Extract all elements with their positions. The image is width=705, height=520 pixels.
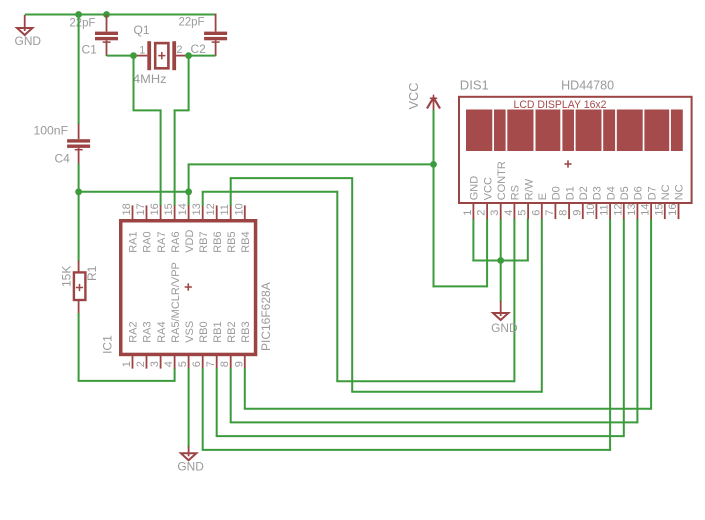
pin 12 RB6 IC1 top: [205, 203, 224, 253]
svg-text:RB2: RB2: [226, 321, 238, 342]
svg-text:D0: D0: [551, 186, 563, 200]
wire RB5 to LCD E: [230, 178, 232, 206]
svg-text:11: 11: [599, 204, 611, 215]
node crystal pin2 junction: [185, 52, 192, 59]
svg-text:C2: C2: [191, 42, 207, 56]
pin 11 RB5 IC1 top: [219, 204, 238, 253]
pin 13 RB7 IC1 top: [191, 203, 210, 253]
wire VCC rail upper: [78, 14, 80, 125]
pin 17 RA0 IC1 top: [135, 203, 154, 253]
svg-text:D2: D2: [578, 186, 590, 200]
wire VCC vertical: [433, 110, 435, 287]
svg-text:NC: NC: [660, 184, 672, 200]
pin 2 VCC DIS1: [476, 177, 495, 219]
svg-text:PIC16F628A: PIC16F628A: [259, 282, 273, 351]
pin 5 R/W DIS1: [517, 178, 536, 219]
svg-text:RA5/MCLR/VPP: RA5/MCLR/VPP: [170, 262, 182, 343]
svg-text:C1: C1: [82, 43, 98, 57]
wire VCC rail mid: [78, 164, 80, 262]
svg-text:13: 13: [191, 203, 203, 215]
svg-text:15: 15: [163, 203, 175, 215]
svg-text:VDD: VDD: [184, 230, 196, 253]
wire LCD pin5 R/W down: [527, 219, 529, 262]
capacitor C1: [95, 15, 118, 57]
pin 11 D4 DIS1: [599, 186, 618, 219]
svg-text:2: 2: [176, 44, 182, 56]
pin 4 RA5/MCLR/VPP IC1 bottom: [163, 262, 182, 369]
node junction VCC: [430, 161, 437, 168]
svg-text:13: 13: [626, 204, 638, 216]
svg-text:1: 1: [121, 361, 133, 367]
svg-text:IC1: IC1: [101, 335, 115, 354]
svg-text:8: 8: [558, 210, 570, 216]
pin 9 RB3 IC1 bottom: [233, 321, 252, 368]
svg-text:100nF: 100nF: [34, 124, 69, 138]
svg-text:RA6: RA6: [170, 231, 182, 252]
svg-text:8: 8: [219, 361, 231, 367]
svg-text:RA4: RA4: [156, 321, 168, 342]
svg-text:RA7: RA7: [156, 231, 168, 252]
svg-text:RB1: RB1: [212, 321, 224, 342]
wire crystal pin2 to C2: [189, 55, 216, 57]
svg-text:6: 6: [191, 361, 203, 367]
svg-text:5: 5: [177, 361, 189, 367]
svg-text:22pF: 22pF: [179, 15, 205, 29]
pin 10 D3 DIS1: [585, 186, 604, 219]
pin 5 VSS IC1 bottom: [177, 321, 196, 369]
svg-text:14: 14: [177, 203, 189, 215]
svg-text:CONTR: CONTR: [496, 161, 508, 200]
svg-text:11: 11: [219, 204, 231, 215]
svg-text:RS: RS: [510, 185, 522, 200]
svg-text:GND: GND: [469, 176, 481, 201]
svg-text:9: 9: [233, 361, 245, 367]
wire crystal pin2 to IC pin15: [188, 55, 190, 111]
display DIS1 HD44780 body: [459, 97, 692, 203]
svg-text:D3: D3: [592, 186, 604, 200]
svg-text:2: 2: [135, 361, 147, 367]
pin 3 RA4 IC1 bottom: [149, 321, 168, 368]
svg-text:NC: NC: [674, 184, 686, 200]
svg-text:E: E: [537, 193, 549, 200]
pin 1 GND DIS1: [462, 176, 481, 219]
svg-text:RB0: RB0: [198, 321, 210, 342]
svg-text:14: 14: [640, 204, 652, 216]
op-amp U1 PIC16F628A IC1 body: [121, 221, 256, 355]
wire R1 to IC pin4 MCLR: [78, 313, 80, 381]
wire C1 to crystal pin1: [107, 55, 134, 57]
ground GND top-left: [15, 15, 42, 48]
svg-text:RB3: RB3: [240, 321, 252, 342]
svg-text:R1: R1: [85, 265, 99, 281]
svg-text:16: 16: [149, 203, 161, 215]
ground GND at LCD: [491, 301, 518, 335]
pin 16 NC DIS1: [667, 184, 686, 219]
wire VDD to VCC symbol line: [188, 163, 434, 165]
pin 16 RA7 IC1 top: [149, 203, 168, 253]
wire rail to VDD vertical: [79, 191, 189, 193]
svg-text:6: 6: [530, 210, 542, 216]
pin 3 CONTR DIS1: [489, 161, 508, 219]
capacitor C2: [204, 14, 227, 57]
node junction C1/top: [103, 11, 110, 18]
pin 9 D2 DIS1: [571, 186, 590, 219]
svg-text:22pF: 22pF: [69, 15, 95, 29]
capacitor C4: [67, 124, 90, 165]
pin 6 E DIS1: [530, 193, 549, 219]
crystal Q1 4MHz: [134, 41, 189, 70]
wire VSS to ground: [188, 368, 190, 447]
supply VCC arrow: [427, 95, 440, 111]
pin 8 D1 DIS1: [558, 186, 577, 219]
svg-text:GND: GND: [177, 460, 204, 474]
pin 2 RA3 IC1 bottom: [135, 321, 154, 368]
svg-text:D6: D6: [633, 186, 645, 200]
svg-text:5: 5: [517, 210, 529, 216]
svg-text:D4: D4: [605, 186, 617, 200]
wire RB1 to LCD D5: [216, 368, 218, 436]
LCD segment blocks: [466, 110, 683, 152]
node junction LCD gnd: [497, 257, 504, 264]
pin 8 RB2 IC1 bottom: [219, 321, 238, 368]
wire VCC to LCD pin2: [433, 285, 488, 287]
svg-text:RA2: RA2: [128, 321, 140, 342]
svg-text:RB5: RB5: [226, 231, 238, 252]
svg-text:RB4: RB4: [240, 231, 252, 252]
svg-text:15K: 15K: [60, 266, 74, 287]
pin 13 D6 DIS1: [626, 186, 645, 219]
resistor R1 15K: [74, 261, 86, 314]
svg-text:3: 3: [489, 210, 501, 216]
svg-text:RA1: RA1: [128, 231, 140, 252]
svg-text:15: 15: [653, 204, 665, 216]
svg-text:RA3: RA3: [142, 321, 154, 342]
pin 14 D7 DIS1: [640, 186, 659, 219]
svg-text:GND: GND: [15, 34, 42, 48]
pin 4 RS DIS1: [503, 185, 522, 219]
pin 7 RB1 IC1 bottom: [205, 321, 224, 368]
svg-text:9: 9: [571, 210, 583, 216]
svg-text:2: 2: [476, 210, 488, 216]
pin 15 RA6 IC1 top: [163, 203, 182, 253]
svg-text:D5: D5: [619, 186, 631, 200]
svg-text:C4: C4: [55, 152, 71, 166]
pin 15 NC DIS1: [653, 184, 672, 219]
node DIS1 origin cross: [564, 160, 571, 167]
svg-text:12: 12: [612, 204, 624, 216]
svg-text:7: 7: [205, 361, 217, 367]
svg-text:12: 12: [205, 203, 217, 215]
svg-text:D7: D7: [646, 186, 658, 200]
pin 1 RA2 IC1 bottom: [121, 321, 140, 368]
svg-text:4MHz: 4MHz: [133, 72, 167, 86]
svg-text:10: 10: [233, 203, 245, 215]
svg-text:D1: D1: [564, 186, 576, 200]
svg-text:RB6: RB6: [212, 231, 224, 252]
wire RB3 to LCD D7: [244, 368, 246, 409]
wire crystal pin1 to IC pin16: [133, 55, 135, 111]
svg-text:VCC: VCC: [482, 177, 494, 200]
svg-text:10: 10: [585, 204, 597, 216]
ground GND at VSS: [177, 446, 204, 473]
node junction rail/VDD line: [75, 188, 82, 195]
svg-text:GND: GND: [491, 321, 518, 335]
pin 6 RB0 IC1 bottom: [191, 321, 210, 368]
svg-text:4: 4: [163, 361, 175, 367]
wire RB7 to LCD RS: [202, 192, 204, 206]
wire LCD pin1 GND down: [472, 219, 474, 262]
pin 14 VDD IC1 top: [177, 203, 196, 253]
wire VDD pin14 up: [188, 164, 190, 206]
node crystal pin1 junction: [130, 52, 137, 59]
pin 10 RB4 IC1 top: [233, 203, 252, 253]
svg-text:HD44780: HD44780: [561, 77, 614, 92]
svg-text:RA0: RA0: [142, 231, 154, 252]
svg-text:DIS1: DIS1: [460, 77, 489, 92]
svg-text:VCC: VCC: [406, 83, 421, 110]
pin 18 RA1 IC1 top: [121, 203, 140, 253]
svg-text:LCD DISPLAY 16x2: LCD DISPLAY 16x2: [514, 99, 607, 111]
svg-text:1: 1: [139, 45, 145, 57]
wire LCD gnd bus: [472, 260, 528, 262]
pin 12 D5 DIS1: [612, 186, 631, 219]
svg-text:16: 16: [667, 204, 679, 216]
wire RB0 to LCD D4: [202, 368, 204, 450]
svg-text:VSS: VSS: [184, 321, 196, 343]
svg-text:3: 3: [149, 361, 161, 367]
svg-text:R/W: R/W: [523, 178, 535, 200]
svg-text:17: 17: [135, 203, 147, 215]
svg-text:Q1: Q1: [134, 23, 150, 37]
pin 7 D0 DIS1: [544, 186, 563, 219]
svg-text:4: 4: [503, 210, 515, 216]
wire RB2 to LCD D6: [230, 368, 232, 422]
node junction VDD/rail: [185, 188, 192, 195]
node junction rail/top: [75, 11, 82, 18]
svg-text:18: 18: [121, 203, 133, 215]
node IC1 origin cross: [185, 283, 192, 290]
svg-text:1: 1: [462, 210, 474, 216]
svg-text:RB7: RB7: [198, 231, 210, 252]
svg-text:7: 7: [544, 210, 556, 216]
wire GND top rail: [25, 14, 216, 16]
wire LCD pin3 CONTR down: [500, 219, 502, 303]
